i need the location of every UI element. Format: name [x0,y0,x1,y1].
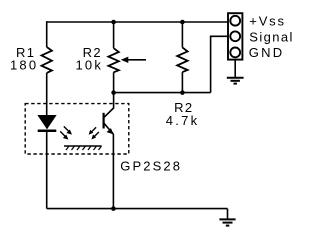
phototransistor Q1 base bar [102,113,104,129]
reflective surface (hatched) [64,146,102,150]
wire pot bottom to collector node [113,72,115,92]
light arrow 1 (from LED) [64,126,72,134]
svg-text:GP2S28: GP2S28 [120,159,182,174]
wire R1 to LED anode [46,73,48,116]
wire R2 4.7k branch top [181,22,183,48]
junction dot bottom rail / emitter [111,206,116,211]
pot wiper arrow [121,57,146,63]
junction dot top rail / R2 4.7k [180,20,185,25]
connector pin 3 [230,48,240,58]
connector pin 2 [230,31,240,41]
connector J1 body [228,13,242,59]
wire collector node horizontal [114,92,211,94]
LED D1 (emitter diode of GP2S28) [38,115,57,132]
wire bottom rail [47,208,228,210]
ground (connector GND pin) [227,60,244,84]
junction dot top rail / pot [111,20,116,25]
wire LED cathode down to bottom rail [46,131,48,209]
wire emitter down to bottom rail [112,134,114,209]
junction dot collector node / pot [111,90,116,95]
wire pot branch top [113,22,115,48]
svg-text:180: 180 [10,58,38,73]
resistor R2 4.7k [177,48,187,73]
svg-text:GND: GND [249,45,284,60]
wire R2 4.7k bottom [181,72,183,93]
svg-text:10k: 10k [76,58,104,73]
ground (bottom right) [219,209,235,226]
wire signal: node to connector pin 2 [211,36,228,92]
dashed box GP2S28 module [25,104,129,154]
wire top rail (+Vss) [47,21,228,23]
light arrow 3 (to phototransistor) [89,127,97,135]
svg-text:Signal: Signal [249,29,294,44]
wire R1 branch top [46,21,48,47]
light arrow 4 (to phototransistor) [91,132,99,140]
svg-text:4.7k: 4.7k [166,113,200,128]
light arrow 2 (from LED) [60,131,68,139]
svg-text:+Vss: +Vss [249,14,285,29]
connector pin 1 [230,16,240,26]
junction dot collector node / R2 4.7k [180,90,185,95]
phototransistor Q1 emitter with arrow [104,123,114,134]
resistor R1 [42,47,52,73]
resistor R2 10k (pot) [108,48,118,72]
phototransistor Q1 collector wire [104,93,113,118]
